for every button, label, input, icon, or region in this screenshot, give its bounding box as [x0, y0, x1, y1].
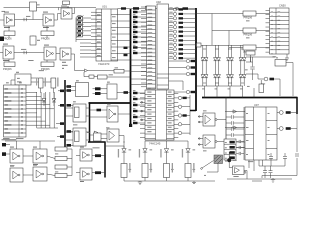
wire R90 left	[196, 13, 243, 15]
resistor R71	[55, 147, 67, 151]
bus segment H3	[89, 102, 132, 104]
power bus V_E	[195, 8, 197, 111]
resistor RA4	[133, 26, 138, 28]
wire R55 down	[40, 88, 42, 93]
connector jack J53	[214, 155, 223, 164]
wire bundle bottom	[37, 127, 58, 129]
transistor QA10	[173, 48, 176, 51]
wire cap join	[282, 165, 286, 167]
wire J55 rows	[236, 141, 245, 143]
transistor QA3	[173, 17, 176, 20]
wire U12B out	[119, 136, 124, 144]
wire U12A in2	[90, 116, 108, 118]
resistor R68	[95, 92, 101, 95]
resistor PRQ06 R52	[41, 31, 54, 36]
resistor RC6	[179, 31, 184, 33]
junction tick	[58, 8, 60, 11]
gate U12A	[107, 106, 118, 122]
wire VL3 top	[166, 141, 168, 149]
wire osc left	[11, 80, 15, 85]
filter box FB1	[94, 133, 102, 141]
capacitor C60	[264, 166, 266, 171]
wire U07 in2	[225, 127, 245, 129]
diode D54	[94, 131, 98, 134]
relay K1	[275, 60, 286, 67]
resistor R72	[55, 157, 67, 161]
gate U14	[233, 166, 245, 175]
wire bottom header	[5, 140, 55, 142]
svg-text:74HC373: 74HC373	[98, 62, 110, 66]
pin labels U02	[148, 9, 153, 10]
wire bottom rail 2	[227, 178, 292, 180]
wire rail left drop	[261, 176, 263, 179]
opto U10 PC817	[73, 104, 86, 122]
crossing ticks row2	[23, 51, 25, 54]
connector table J55	[224, 139, 236, 160]
IC U02	[157, 4, 169, 89]
label bottom left header	[3, 137, 10, 140]
wire vert x229	[228, 31, 230, 46]
IC U03 74HC245	[145, 90, 174, 140]
resistor RA2	[133, 16, 138, 18]
transistor Q55	[264, 77, 268, 81]
label mid row2	[28, 59, 33, 62]
resistor RB4	[133, 110, 138, 112]
wire R51	[8, 26, 10, 31]
resistor RA9	[133, 52, 138, 54]
wire VL2 top	[144, 141, 146, 149]
wire net KM	[253, 88, 255, 98]
wire U07 out2	[277, 128, 279, 130]
resistor R80 330	[121, 164, 127, 178]
resistor R55 vertical	[39, 78, 44, 88]
wire long vert x250	[250, 57, 252, 62]
resistor R82 330	[164, 164, 170, 178]
wire LED feed	[105, 145, 124, 147]
resistor R81 330	[142, 164, 148, 178]
capacitor C54	[124, 54, 128, 56]
wire R92 left	[229, 46, 243, 48]
wire J54	[260, 80, 262, 84]
resistor R64 on bus	[60, 135, 64, 138]
label 9HUL4	[10, 164, 14, 167]
zener D51	[42, 99, 46, 103]
LED VL4	[186, 149, 190, 153]
wire K1 out	[286, 62, 293, 64]
crossing ticks	[23, 18, 25, 21]
inverter U50-4	[3, 46, 14, 59]
rail cap ladder right	[243, 107, 245, 160]
wire U12A out	[118, 113, 131, 115]
capacitor CL1	[226, 116, 231, 118]
resistor R56 vertical	[51, 78, 56, 88]
wire L1 in	[84, 76, 89, 78]
wire U50-1 input	[0, 19, 4, 21]
component FB0	[63, 1, 70, 5]
svg-text:PRQ06: PRQ06	[244, 33, 253, 37]
svg-text:74HC245: 74HC245	[149, 141, 161, 145]
opto U11 PC817	[73, 128, 86, 146]
U03 cell texts	[147, 92, 151, 93]
resistor R59 on bus	[67, 89, 72, 92]
resistor RA5	[133, 31, 138, 33]
wire U50-5 out	[56, 53, 60, 55]
IC U02 left pins	[141, 6, 147, 8]
svg-text:U01: U01	[102, 5, 107, 9]
wire net K1	[246, 56, 275, 58]
wire stub left U52B	[76, 172, 80, 174]
resistor R94	[286, 111, 291, 114]
IC U01 left pins	[91, 11, 96, 13]
label PWR_LED1	[93, 146, 100, 149]
transistor QA9	[173, 43, 176, 46]
wire U50-4 in	[0, 52, 3, 54]
resistor RB6	[133, 122, 138, 124]
transistor QB61	[186, 59, 189, 62]
resistor RC10	[179, 48, 184, 50]
wire C50 down	[32, 11, 34, 20]
wire P52	[6, 153, 10, 155]
wire corner row	[169, 81, 184, 90]
label mid row3	[39, 69, 44, 72]
label A9C6 block	[62, 61, 66, 64]
capacitor C12	[252, 57, 254, 67]
capacitor CL2	[226, 122, 231, 124]
diode chain D2	[214, 45, 216, 57]
resistor RB3	[133, 104, 138, 106]
transistor QA5	[173, 26, 176, 29]
svg-text:PRQ06: PRQ06	[3, 37, 12, 41]
wire U50-4 out	[14, 52, 44, 54]
diode chain D1	[202, 45, 204, 57]
wire U13A in2	[198, 121, 203, 123]
wire gateD out	[47, 174, 55, 176]
resistor R91 PRQ06	[243, 28, 256, 33]
label U12B above	[106, 126, 110, 129]
wire U50-6 out	[71, 53, 75, 55]
wire VL3 mid	[166, 152, 168, 163]
transistor QA7	[173, 34, 176, 37]
transistor QB92	[186, 90, 189, 93]
bus segment V_B	[89, 102, 91, 142]
bead FB4 on rail	[121, 7, 126, 9]
transistor QA4	[173, 21, 176, 24]
capacitor C50	[30, 2, 37, 11]
wire R91 left	[212, 30, 243, 32]
wire vert x212	[211, 14, 213, 46]
resistor RC11	[179, 53, 184, 55]
transistor QA2	[173, 12, 176, 15]
resistor RC1	[179, 8, 184, 10]
wire top rail right	[118, 8, 197, 10]
wire bundle from J05	[36, 92, 38, 128]
resistor R92 PRQ06	[243, 45, 256, 50]
wire plain pin rows	[76, 39, 91, 41]
gate U13B	[203, 135, 215, 148]
wire chain drops	[204, 86, 206, 98]
transistor Q57	[279, 127, 283, 131]
resistor RA7	[133, 41, 138, 43]
resistor R69	[124, 91, 129, 94]
wire U14 out	[244, 171, 247, 180]
capacitor CM2	[237, 147, 239, 149]
transistor QB67.5	[186, 66, 189, 69]
wire P51	[6, 144, 10, 146]
wire U13A out	[217, 119, 226, 121]
capacitor C63	[284, 153, 286, 156]
inverter U51-1	[33, 149, 47, 163]
label VL3	[171, 148, 174, 151]
wire U13A in1	[198, 116, 203, 118]
junction bubble	[67, 7, 69, 9]
input network rows left of U01	[75, 18, 77, 43]
switch SW1 lever	[201, 168, 203, 170]
wire node A	[15, 19, 44, 21]
pad top left	[2, 10, 6, 13]
ground LED rail	[139, 181, 141, 182]
terminal strip X02	[147, 6, 156, 89]
wire net KL	[246, 73, 258, 75]
resistor RA3	[133, 21, 138, 23]
wire LED top rail	[145, 140, 188, 142]
inverter U50-5b	[10, 168, 23, 182]
diode D53	[85, 69, 88, 72]
resistor RC3	[179, 17, 184, 19]
inverter U51-2	[33, 167, 47, 181]
inverter U52B	[80, 168, 92, 180]
zener D52	[52, 99, 56, 103]
wire FB1 to U12B	[101, 133, 107, 135]
resistor R90 PRQ06	[243, 11, 256, 16]
label net KM	[247, 85, 250, 88]
wire U13B in2	[198, 144, 203, 146]
LED VL2	[143, 149, 147, 153]
svg-text:PRQ06: PRQ06	[3, 67, 12, 71]
rail cap ladder left	[225, 98, 227, 163]
resistor R83 330	[185, 164, 191, 178]
resistor RA1	[133, 11, 138, 13]
component F1	[197, 43, 202, 47]
wire Q50 top	[228, 152, 230, 158]
IC U08 comparator	[76, 83, 89, 97]
wire VL1 top	[123, 141, 125, 149]
bus rail H6	[202, 97, 297, 99]
gate U09	[107, 84, 117, 99]
svg-text:U07: U07	[254, 103, 259, 107]
LED VL1	[122, 149, 126, 153]
label VL4	[193, 148, 196, 151]
capacitor CL4	[226, 134, 231, 136]
svg-text:PRQ06: PRQ06	[41, 37, 50, 41]
wire collect right of U03	[189, 95, 191, 135]
resistor R74	[55, 174, 67, 178]
IC U01 74HC373	[96, 9, 118, 61]
resistor RA6	[133, 36, 138, 38]
resistor R62 on bus	[60, 122, 64, 125]
resistor R66 4.7K	[114, 69, 124, 73]
resistor RD74	[191, 73, 196, 75]
label 47MHZ	[26, 15, 30, 18]
capacitor CM1	[237, 141, 239, 143]
connector J05 table	[4, 85, 27, 137]
svg-text:PRQ06: PRQ06	[244, 16, 253, 20]
label VL1	[129, 148, 132, 151]
wire VL1 mid	[123, 152, 125, 163]
capacitor C61	[270, 166, 272, 171]
resistor RD67.5	[191, 66, 196, 68]
wire D53 out	[88, 70, 115, 72]
transistor QA11	[173, 52, 176, 55]
resistor R63 on bus	[67, 130, 72, 133]
wire row y70	[75, 54, 85, 71]
capacitor C77 on V_F	[295, 153, 299, 155]
resistor RC9	[179, 44, 184, 46]
ground G2	[272, 178, 274, 180]
bus segment V_C	[104, 142, 106, 178]
label connector note	[2, 138, 17, 141]
wire U07 bottom pins	[248, 160, 250, 168]
wire cap feed	[259, 165, 282, 167]
wire net KJ	[246, 61, 253, 63]
wire gateA-B	[23, 155, 33, 157]
resistor R70	[97, 109, 102, 112]
ground CN50	[286, 54, 288, 58]
resistor RD61	[191, 60, 196, 62]
wire jack down	[207, 164, 218, 173]
wire U50-3 out to top rail	[72, 8, 75, 14]
resistor R93	[270, 78, 275, 81]
bead FB5 on rail	[133, 7, 139, 10]
IC U01 right pins	[118, 14, 131, 16]
resistor R95	[286, 127, 291, 130]
label CN50 footprint	[273, 55, 277, 58]
wire diode rail top	[195, 44, 243, 46]
wire bottom rail right	[262, 175, 297, 177]
wire VL4 mid	[187, 152, 189, 163]
labels LED vertical	[118, 149, 119, 158]
component FB2	[246, 51, 255, 55]
wire osc out a	[31, 77, 38, 79]
wire R collect	[71, 149, 73, 176]
resistor RB1	[133, 92, 138, 94]
transistor QA8	[173, 39, 176, 42]
capacitor C53	[124, 47, 128, 49]
gate U12B	[107, 129, 119, 142]
wire diode rail bottom	[197, 85, 243, 87]
wire U09 out	[117, 92, 124, 94]
wire stub left U52A	[76, 155, 80, 157]
bottom rail net	[124, 180, 215, 182]
wire R52	[46, 26, 48, 31]
resistor PRQ06 R53	[4, 62, 15, 67]
junction on rail	[176, 7, 179, 10]
pad P51	[2, 143, 6, 146]
pad P50	[0, 37, 4, 42]
inverter U50-3	[61, 8, 72, 19]
LED VL3	[164, 149, 168, 153]
capacitor C62	[270, 153, 272, 156]
IC U03 right pins	[174, 93, 178, 95]
connector J54	[259, 84, 264, 93]
wire osc out b	[31, 81, 51, 83]
resistor R60 on bus	[60, 104, 64, 107]
resistor R75	[95, 154, 101, 157]
bead FB6 on rail	[183, 7, 189, 10]
crystal Y51	[30, 36, 36, 45]
gate U13A	[203, 113, 215, 126]
ground G1	[193, 181, 195, 183]
wire stub rows to strip	[131, 59, 147, 61]
wire VL4 bottom	[187, 178, 189, 182]
wire FB2 down	[250, 55, 252, 62]
wire U50-2 out	[54, 14, 61, 21]
inverter U50-6	[60, 48, 71, 60]
power bus V_A	[64, 80, 66, 147]
resistor R73	[55, 165, 67, 169]
svg-text:U02: U02	[156, 0, 161, 4]
wire U13B in1	[198, 138, 203, 140]
wire VL2 mid	[144, 152, 146, 163]
bus segment H9	[88, 141, 106, 143]
bus V_D end pad	[129, 124, 132, 127]
wire top rail left	[4, 7, 97, 9]
wire VL2 bottom	[144, 178, 146, 182]
transistor QA12	[173, 57, 176, 60]
resistor R61 on bus	[67, 104, 72, 107]
connector CN50 stubs	[266, 9, 270, 11]
svg-text:CN50: CN50	[279, 4, 286, 8]
resistor PRQ06 R54	[41, 62, 54, 67]
resistor RB2	[133, 98, 138, 100]
inverter U50-4b	[10, 149, 23, 163]
diode chain D3	[227, 45, 229, 57]
label C2 10PF	[21, 48, 26, 51]
resistor RC5	[179, 26, 184, 28]
inverter U50-1	[4, 14, 15, 26]
wire VL1 bottom	[123, 178, 125, 182]
resistor RD92	[191, 91, 196, 93]
label R71	[55, 153, 58, 156]
resistor R67	[95, 87, 101, 90]
power bus V_D	[130, 9, 132, 126]
resistor R76	[95, 171, 101, 174]
transistor QA1	[173, 8, 176, 11]
label VL2	[150, 148, 153, 151]
wire gateB out	[47, 156, 55, 159]
resistor PRQ06 R51	[4, 31, 15, 36]
pad P52	[2, 152, 6, 156]
wire U13B out	[217, 141, 226, 143]
capacitor CL3	[226, 128, 231, 130]
wire U07 out1	[277, 112, 279, 114]
wire V_F continue	[296, 114, 298, 152]
inverter U52A	[80, 149, 92, 161]
connector CN50	[270, 8, 290, 54]
wire R56 down	[52, 88, 54, 93]
transistor Q50	[227, 158, 231, 162]
resistor R58 on bus	[67, 85, 72, 88]
transistor QB74	[186, 72, 189, 75]
transistor Q56	[279, 111, 283, 115]
wire Q50 bottom	[229, 162, 232, 167]
resistor RB5	[133, 116, 138, 118]
oscillator Y50 module	[15, 74, 31, 85]
wire gateC-D	[23, 174, 33, 176]
component L1	[89, 75, 94, 78]
resistor RC7	[179, 35, 184, 37]
diode chain D4	[240, 45, 242, 57]
resistor RC4	[179, 22, 184, 24]
